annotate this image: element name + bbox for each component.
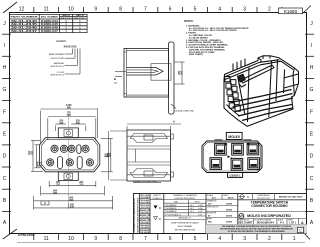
svg-text:.240: .240 bbox=[180, 70, 183, 75]
svg-text:XXXX-XXX: XXXX-XXX bbox=[64, 45, 77, 49]
svg-text:K1680: K1680 bbox=[284, 9, 298, 14]
revision rows bbox=[140, 199, 151, 229]
front view dim top 3 bbox=[55, 123, 66, 125]
revision letter box C bbox=[298, 227, 304, 232]
iso mating face cavities bbox=[225, 77, 241, 112]
svg-text:2: 2 bbox=[268, 236, 271, 242]
iso front face seams bbox=[248, 68, 250, 123]
svg-text:DO-K1680-044: DO-K1680-044 bbox=[257, 222, 275, 225]
svg-text:THE DRAWING CONTAINS INFORMATI: THE DRAWING CONTAINS INFORMATION THAT IS… bbox=[222, 225, 292, 228]
svg-text:REVISED PER: REVISED PER bbox=[139, 215, 151, 217]
svg-text:5: 5 bbox=[194, 236, 197, 242]
svg-text:C: C bbox=[299, 229, 302, 233]
iso body ribs bbox=[231, 90, 294, 121]
side view bbox=[113, 42, 194, 114]
svg-text:C: C bbox=[3, 176, 7, 182]
svg-text:.640: .640 bbox=[109, 152, 112, 157]
svg-text:C0953-1: C0953-1 bbox=[230, 174, 241, 178]
circuit cross ticks bbox=[48, 147, 92, 165]
title text bbox=[251, 201, 289, 209]
front view dim top 2 bbox=[48, 116, 96, 118]
svg-text:THIRD ANGLE: THIRD ANGLE bbox=[257, 194, 270, 197]
mating top ledges bbox=[215, 139, 223, 141]
svg-text:ENG. NUMBER: ENG. NUMBER bbox=[41, 16, 59, 18]
mating bottom label box bbox=[228, 173, 243, 178]
svg-text:6/23/98: 6/23/98 bbox=[226, 216, 232, 218]
svg-text:EC K-0981: EC K-0981 bbox=[141, 227, 149, 229]
svg-text:REVISE ON CAD ONLY: REVISE ON CAD ONLY bbox=[279, 196, 303, 199]
zone letters left bbox=[3, 21, 7, 226]
zone ticks bottom bbox=[34, 234, 282, 241]
molex label box bbox=[226, 132, 242, 139]
svg-text:8: 8 bbox=[119, 236, 122, 242]
front view dim top 1 bbox=[41, 108, 98, 110]
svg-text:INCORPORATED AND SHOULD NOT BE: INCORPORATED AND SHOULD NOT BE USED WITH… bbox=[220, 228, 293, 231]
zone ticks left bbox=[2, 34, 11, 211]
general tolerances bbox=[173, 194, 197, 200]
svg-text:11: 11 bbox=[44, 7, 49, 13]
svg-text:TITLE: TITLE bbox=[239, 199, 243, 201]
svg-text:EC K-1998: EC K-1998 bbox=[141, 202, 149, 204]
svg-text:ANGULAR ±3°: ANGULAR ±3° bbox=[179, 217, 192, 220]
zone ticks top bbox=[34, 7, 282, 12]
svg-text:MUST REMAIN: MUST REMAIN bbox=[178, 225, 193, 228]
svg-text:.315: .315 bbox=[55, 184, 60, 186]
svg-text:SEE CHART: SEE CHART bbox=[238, 222, 253, 225]
svg-text:MOLEX INCORPORATED: MOLEX INCORPORATED bbox=[247, 214, 291, 218]
svg-text:REV C 6/98: REV C 6/98 bbox=[140, 195, 149, 197]
iso right flange bbox=[293, 68, 294, 96]
front view dims left bbox=[32, 141, 34, 172]
svg-text:.890: .890 bbox=[69, 200, 74, 202]
svg-text:I: I bbox=[4, 43, 5, 49]
iso silhouette bbox=[224, 56, 299, 127]
svg-text:UNITS: UNITS bbox=[223, 195, 229, 197]
zone numbers bottom bbox=[44, 236, 296, 242]
svg-text:5: 5 bbox=[194, 7, 197, 13]
svg-text:F: F bbox=[3, 110, 6, 116]
parts table bbox=[9, 14, 87, 33]
side view dim B left bbox=[115, 70, 126, 72]
svg-text:(SEE CHART): (SEE CHART) bbox=[189, 53, 203, 56]
proprietary band bbox=[206, 225, 307, 234]
size row bbox=[254, 219, 299, 225]
svg-text:D: D bbox=[310, 154, 314, 160]
svg-text:QUALITY: QUALITY bbox=[153, 194, 162, 197]
svg-text:K1680-047: K1680-047 bbox=[41, 30, 59, 33]
mating arrows bbox=[225, 143, 228, 146]
front view (mating face) bbox=[202, 132, 262, 177]
svg-text:6/23/98: 6/23/98 bbox=[226, 210, 232, 212]
iso latch housing wall ticks bbox=[232, 64, 234, 71]
svg-text:D: D bbox=[3, 154, 7, 160]
svg-text:10: 10 bbox=[68, 236, 74, 242]
svg-text:NOTES:: NOTES: bbox=[184, 20, 194, 23]
svg-text:4: 4 bbox=[218, 236, 221, 242]
svg-text:39-01-2047: 39-01-2047 bbox=[11, 30, 38, 33]
svg-text:DRN 6/23/98: DRN 6/23/98 bbox=[140, 230, 149, 232]
svg-text:EC K-1520: EC K-1520 bbox=[141, 212, 149, 214]
svg-text:G: G bbox=[3, 87, 7, 93]
svg-text:OF MOLEX INCORPORATED. THIS DR: OF MOLEX INCORPORATED. THIS DRAWING IS U… bbox=[228, 230, 286, 233]
svg-text:9: 9 bbox=[94, 236, 97, 242]
top view dim A bbox=[127, 123, 181, 125]
iso top step bbox=[262, 56, 264, 59]
legend bbox=[49, 40, 80, 76]
svg-text:.990: .990 bbox=[66, 108, 71, 110]
svg-text:1.070: 1.070 bbox=[68, 207, 74, 209]
svg-text:ENG APPR: ENG APPR bbox=[207, 212, 217, 215]
title block bbox=[133, 194, 307, 235]
front view top tab bbox=[58, 128, 78, 138]
svg-text:WITHIN DIMENSIONS: WITHIN DIMENSIONS bbox=[175, 230, 196, 232]
svg-text:LEGEND:: LEGEND: bbox=[56, 40, 67, 43]
svg-text:DRAWN BY: DRAWN BY bbox=[207, 200, 217, 203]
side view body bbox=[124, 49, 169, 98]
svg-text:INCH: INCH bbox=[228, 198, 234, 200]
svg-text:A: A bbox=[173, 120, 175, 124]
zone ticks right bbox=[305, 34, 314, 211]
svg-text:PART NUMBER: PART NUMBER bbox=[11, 15, 39, 18]
svg-text:.640: .640 bbox=[53, 192, 58, 195]
notes bbox=[184, 20, 249, 56]
top view bbox=[105, 120, 181, 181]
svg-text:12: 12 bbox=[19, 7, 25, 13]
svg-text:F: F bbox=[310, 110, 313, 116]
title header row bbox=[238, 199, 307, 201]
svg-text:BASE NUMBER: BASE NUMBER bbox=[49, 53, 65, 56]
svg-text:(.020) ALL AROUND: (.020) ALL AROUND bbox=[174, 110, 194, 113]
front view bottom tab bbox=[58, 172, 78, 181]
side view latch slot bbox=[127, 68, 164, 76]
front view centerline bbox=[68, 113, 70, 210]
svg-text:2: 2 bbox=[268, 7, 271, 13]
front view bottom row circuits bbox=[47, 157, 94, 169]
third angle projection row bbox=[238, 194, 307, 200]
front view dim right bbox=[110, 139, 112, 172]
svg-text:BEFORE PLATING AND AFTER PLATI: BEFORE PLATING AND AFTER PLATING bbox=[136, 197, 139, 232]
svg-text:B: B bbox=[114, 77, 116, 81]
isometric view bbox=[224, 56, 299, 127]
svg-text:REVISED PER: REVISED PER bbox=[139, 210, 151, 212]
svg-text:3: 3 bbox=[243, 7, 246, 13]
svg-text:REVISED PER: REVISED PER bbox=[139, 220, 151, 222]
svg-text:-B: -B bbox=[159, 207, 162, 210]
top view latch ramps bbox=[130, 134, 168, 143]
mating cavity contacts bbox=[213, 150, 257, 168]
front view datum B bbox=[41, 201, 49, 205]
revision column rotated text bbox=[133, 197, 139, 232]
svg-text:6/23/98: 6/23/98 bbox=[226, 204, 232, 206]
svg-text:6/23/98: 6/23/98 bbox=[226, 222, 232, 224]
side view all around note bbox=[171, 104, 176, 109]
scale and signature rows bbox=[206, 194, 238, 218]
svg-text:4: 4 bbox=[218, 7, 221, 13]
svg-text:MOLEX: MOLEX bbox=[228, 135, 241, 139]
svg-text:G: G bbox=[310, 87, 314, 93]
side view flange bbox=[169, 42, 175, 114]
svg-text:(SEE NOTE 2): (SEE NOTE 2) bbox=[50, 74, 64, 76]
iso top band double edge bbox=[225, 60, 280, 77]
zone letters right bbox=[310, 21, 314, 226]
svg-text:PROJECTION: PROJECTION bbox=[257, 198, 270, 200]
svg-text:8: 8 bbox=[119, 7, 122, 13]
front view dims below bbox=[49, 184, 96, 186]
svg-text:7: 7 bbox=[144, 7, 147, 13]
top view body bbox=[127, 130, 171, 181]
svg-text:MATERIAL: MATERIAL bbox=[54, 62, 65, 65]
svg-text:GENERAL TOLERANCES: GENERAL TOLERANCES bbox=[173, 194, 197, 197]
svg-text:H: H bbox=[3, 65, 7, 71]
svg-text:MATL A: MATL A bbox=[62, 14, 70, 17]
svg-text:11: 11 bbox=[44, 236, 49, 242]
svg-text:.240: .240 bbox=[75, 122, 80, 125]
front view top row circuits bbox=[51, 145, 89, 153]
side view hidden cavity bbox=[151, 64, 171, 80]
svg-text:1: 1 bbox=[293, 236, 296, 242]
svg-text:CHK 6/23/98: CHK 6/23/98 bbox=[140, 232, 149, 234]
iso bottom left foot bbox=[227, 105, 240, 117]
svg-text:SHEET: SHEET bbox=[288, 219, 293, 221]
svg-text:7: 7 bbox=[144, 236, 147, 242]
iso latch arm bbox=[241, 65, 274, 83]
svg-text:APPR: APPR bbox=[207, 218, 213, 221]
svg-text:SCALE: SCALE bbox=[207, 194, 214, 197]
svg-text:CONNECTOR HOUSING: CONNECTOR HOUSING bbox=[251, 204, 288, 208]
front view outline bbox=[40, 138, 100, 172]
mating cavities bbox=[210, 143, 259, 170]
side view dim right bbox=[175, 61, 185, 63]
svg-text:.315: .315 bbox=[79, 184, 84, 186]
zone numbers top bbox=[19, 7, 271, 13]
svg-text:CIRCUIT SIZE: CIRCUIT SIZE bbox=[50, 58, 64, 60]
svg-text:3: 3 bbox=[243, 236, 246, 242]
svg-text:DRAFT WHERE APPLICABLE: DRAFT WHERE APPLICABLE bbox=[171, 222, 199, 225]
svg-text:.750: .750 bbox=[66, 115, 71, 117]
front view datum A bbox=[37, 162, 41, 166]
iso mating face edge bbox=[238, 76, 246, 116]
svg-text:TOLERANCE FLAG DIMENSIONS APPL: TOLERANCE FLAG DIMENSIONS APPLY bbox=[133, 197, 136, 232]
note above title block bbox=[133, 180, 161, 183]
front view (wire side) bbox=[28, 105, 113, 209]
svg-text:6: 6 bbox=[169, 7, 172, 13]
svg-text:I: I bbox=[311, 43, 312, 49]
drawing number box K1680 top right bbox=[279, 8, 303, 14]
svg-text:MATL B: MATL B bbox=[76, 14, 84, 17]
svg-text:C: C bbox=[310, 176, 314, 182]
svg-text:EC K-1760: EC K-1760 bbox=[141, 207, 149, 209]
svg-text:H: H bbox=[310, 65, 314, 71]
molex logo + name bbox=[239, 214, 244, 219]
mating outline bbox=[202, 141, 262, 173]
svg-text:A/TM-2000: A/TM-2000 bbox=[18, 233, 36, 237]
svg-text:10: 10 bbox=[68, 7, 74, 13]
svg-text:CHECKED BY: CHECKED BY bbox=[207, 207, 219, 209]
svg-text:-D: -D bbox=[159, 218, 162, 221]
quality symbols bbox=[152, 194, 162, 200]
svg-text:6: 6 bbox=[169, 236, 172, 242]
top view dim left bbox=[108, 131, 110, 180]
svg-text:.240: .240 bbox=[59, 122, 64, 125]
svg-text:(SEE NOTE 1): (SEE NOTE 1) bbox=[50, 66, 64, 68]
svg-text:9: 9 bbox=[94, 7, 97, 13]
svg-text:.530: .530 bbox=[31, 150, 33, 155]
